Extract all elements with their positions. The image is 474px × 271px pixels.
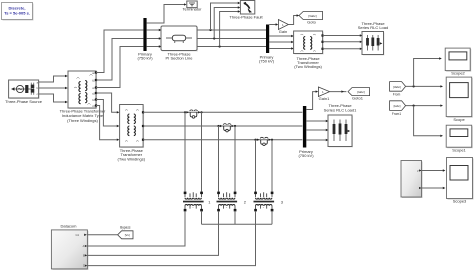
svg-text:Scope1: Scope1 [452, 147, 466, 152]
wire bus B1 to terminator [147, 5, 185, 24]
wire gain to goto [288, 16, 297, 25]
port arrows into T1 [65, 75, 68, 103]
subsystem datacom [51, 230, 88, 270]
wire line2 to unit2 right [234, 126, 236, 192]
wires T3 to RLC load 1 [323, 36, 361, 49]
breaker 1 on line 1 [186, 110, 200, 118]
svg-text:(Two Windings): (Two Windings) [294, 64, 322, 69]
PI section line block [161, 26, 198, 52]
wire subsystem2 out1 to scope3 [422, 170, 444, 172]
svg-text:Scope: Scope [453, 117, 465, 122]
mid line 1 [143, 111, 302, 113]
wire bypass to datacom [87, 234, 117, 236]
svg-text:Scope2: Scope2 [451, 71, 465, 76]
multiwinding transformer unit 1 [183, 192, 204, 212]
svg-text:Series RLC Load: Series RLC Load [358, 25, 388, 30]
svg-text:(Two Windings): (Two Windings) [118, 156, 146, 161]
multiwinding transformer unit 3 [254, 192, 275, 212]
wire datacom A to unit1 [87, 211, 185, 246]
wire line1 to unit1 right [201, 112, 203, 191]
svg-text:Goto: Goto [307, 19, 316, 24]
transformer T3 two windings [294, 31, 324, 55]
wire line1 to fault A [211, 3, 239, 30]
svg-text:Three-Phase Fault: Three-Phase Fault [229, 14, 263, 19]
terminator block [187, 1, 197, 8]
breaker 3 on line 3 [257, 137, 271, 145]
from tag bypass [118, 231, 133, 239]
transformer T1 three windings [68, 71, 97, 109]
svg-text:From1: From1 [392, 112, 401, 116]
powergui block [2, 3, 34, 21]
svg-text:Bypass: Bypass [120, 226, 131, 230]
wire datacom B to unit2 [87, 211, 218, 255]
from tag A [390, 82, 406, 92]
wire line1 to unit1 left [184, 112, 186, 191]
svg-text:C: C [83, 265, 85, 268]
bus B2 750kV [266, 25, 269, 54]
wire line2 to unit2 left [218, 126, 220, 192]
svg-text:Goto1: Goto1 [352, 95, 364, 100]
wire T1 b2 up to line2 [96, 39, 143, 81]
svg-text:[Vabc]: [Vabc] [308, 14, 316, 18]
wire T1 b3 to T2 [96, 100, 118, 127]
wire source a to T1 [39, 76, 66, 82]
bus B3 [303, 106, 306, 148]
three-phase source [9, 80, 40, 99]
from tag B [390, 101, 406, 111]
wire line2 to fault B [214, 8, 238, 39]
mid line 2 [143, 125, 302, 127]
wire line3 to unit3 left [255, 140, 257, 192]
three-phase series RLC load 1 [362, 32, 385, 56]
gain1 triangle [318, 87, 329, 97]
multiwinding transformer unit 2 [217, 192, 238, 212]
wire source b to T1 [39, 87, 66, 89]
three-phase series RLC load 2 [328, 115, 353, 148]
gain triangle [278, 20, 288, 30]
wire bus B2 to gain [269, 24, 276, 26]
scope1 [446, 125, 473, 148]
svg-text:[Vabc]: [Vabc] [393, 85, 401, 89]
neutral tie wire [202, 211, 273, 224]
mid line 3 [143, 139, 302, 141]
svg-text:[Iabc]: [Iabc] [394, 104, 401, 108]
scope (big) [446, 77, 473, 118]
scope3 [447, 158, 474, 200]
wire datacom C to unit3 [87, 211, 255, 266]
wire T1 c2 up to line3 [96, 47, 143, 88]
svg-text:From: From [393, 93, 401, 97]
svg-text:Series RLC Load1: Series RLC Load1 [324, 107, 357, 112]
transformer T2 two windings [120, 105, 145, 149]
wires bus B1 to PI line [147, 30, 160, 47]
wires bus B2 to T3 [269, 36, 292, 49]
svg-text:(750 kV): (750 kV) [259, 59, 275, 64]
svg-text:PI Section Line: PI Section Line [166, 56, 194, 61]
wire subsystem2 out2 to scope3 [422, 187, 444, 189]
wire bus B3 to gain1 [306, 92, 316, 110]
subsystem 2 [401, 161, 423, 199]
goto1 tag [348, 88, 370, 96]
junction dots unit taps [184, 111, 186, 113]
junction dot [413, 85, 415, 87]
svg-text:Terminator: Terminator [183, 7, 203, 12]
svg-text:(750 kV): (750 kV) [298, 153, 314, 158]
wire line3 to fault C [220, 12, 239, 47]
wire gain1 to goto1 [330, 91, 347, 93]
svg-text:Ts = 5e-005 s.: Ts = 5e-005 s. [4, 11, 30, 16]
wire junction down to scope1 [414, 106, 442, 136]
bus B1 750kV [143, 18, 146, 51]
svg-text:[Vs]: [Vs] [125, 233, 130, 237]
svg-text:Gain: Gain [279, 29, 287, 34]
wire from tag A to scope [406, 85, 442, 87]
wire T1 a2 up to line1 [96, 30, 143, 73]
svg-text:Datacom: Datacom [60, 223, 77, 228]
wire source c to T1 [39, 94, 66, 102]
wire junction up to scope2 [414, 59, 440, 87]
scope2 [445, 48, 471, 72]
svg-text:[Iabc]: [Iabc] [357, 90, 365, 94]
lines PI to bus B2 [197, 30, 266, 47]
svg-text:Gain1: Gain1 [319, 96, 330, 101]
wire from tag B to scope [406, 105, 442, 107]
junction dots fault taps [209, 29, 211, 31]
three-phase fault block [240, 1, 254, 15]
wire T1 a3 to T2 [96, 93, 118, 112]
junction dot [413, 105, 415, 107]
wire T1 c3 to T2 [96, 106, 118, 140]
svg-text:(Three Windings): (Three Windings) [67, 118, 98, 123]
breaker 2 on line 2 [220, 124, 234, 132]
svg-text:Scope3: Scope3 [453, 198, 467, 203]
wire line3 to unit3 right [271, 140, 273, 192]
svg-text:(750 kV): (750 kV) [137, 56, 153, 61]
goto tag [299, 12, 323, 20]
wires bus B3 to RLC load 2 [306, 121, 327, 140]
svg-text:Three-Phase Source: Three-Phase Source [5, 99, 43, 104]
